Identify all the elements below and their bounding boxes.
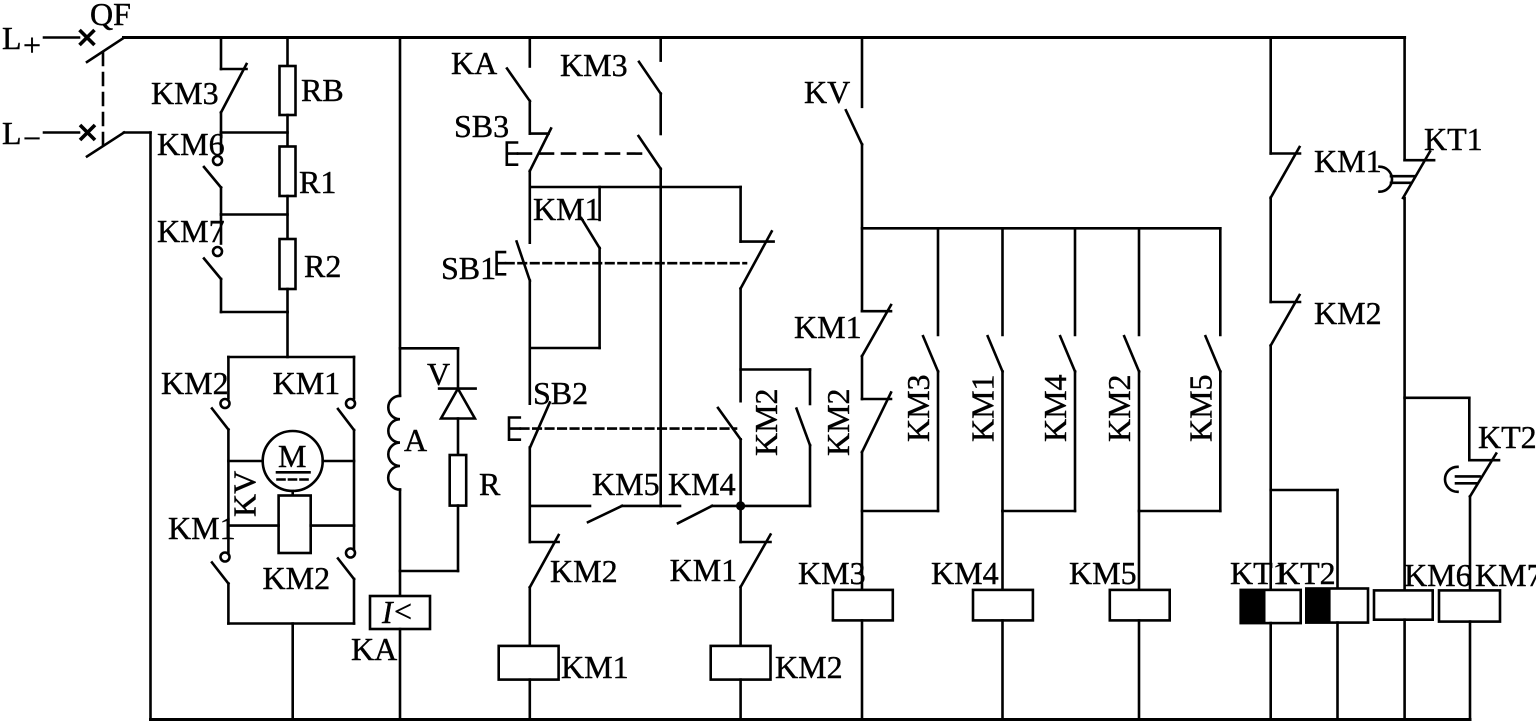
relay coil KV <box>227 471 311 553</box>
wire I-relay to bus <box>399 629 402 720</box>
svg-text:KT2: KT2 <box>1478 419 1536 455</box>
wire bridge left lower <box>227 584 230 624</box>
wire KT2 branch top <box>1271 489 1338 492</box>
svg-text:R2: R2 <box>304 248 341 284</box>
wire KM1 coil to bus <box>528 680 531 720</box>
contact KM1 (NC series) <box>794 305 891 356</box>
node L- <box>2 115 41 156</box>
node L+ <box>2 20 41 63</box>
contactor coil KM6 <box>1374 557 1472 620</box>
contact KM1 (NC right) <box>1271 143 1382 198</box>
contact KA (NO) <box>451 45 530 101</box>
wire bridge bottom <box>228 622 354 625</box>
contact KM4 branch (NO) <box>1037 336 1075 442</box>
contactor coil KM7 <box>1439 557 1536 622</box>
svg-text:KM5: KM5 <box>592 466 660 502</box>
junction dot <box>736 501 745 510</box>
wire L- lead <box>44 131 79 134</box>
wire motor right <box>323 460 354 463</box>
wire KM2 coil to bus <box>739 680 742 720</box>
contact SB2 (NO) <box>530 375 588 448</box>
svg-text:R1: R1 <box>299 164 336 200</box>
wire KM5 coil to bus <box>1138 620 1141 719</box>
wire RB to R1 <box>286 115 289 147</box>
wire L- to left rail <box>124 131 151 134</box>
svg-text:KV: KV <box>227 471 263 517</box>
wire KM2 NC to KM1 coil <box>528 587 531 646</box>
svg-text:KM3: KM3 <box>798 555 866 591</box>
wire bus to KM3 upper <box>659 38 662 61</box>
wire SB2 to node B <box>528 448 531 506</box>
wire KM6 coil to bus <box>1403 620 1406 720</box>
wire node B to KM2 NC <box>528 506 531 542</box>
wire KM4 coil to bus <box>1001 620 1004 719</box>
contact KM7 <box>157 213 225 279</box>
svg-text:KM1: KM1 <box>561 649 629 685</box>
svg-text:KM2: KM2 <box>550 553 618 589</box>
contact KM6 <box>157 126 225 188</box>
svg-text:+: + <box>23 27 41 63</box>
resistor R2 <box>280 239 342 289</box>
contact KM5 (NO horizontal) <box>588 466 660 522</box>
contact KM2 (bridge top-left) <box>161 365 230 430</box>
wire group top bus <box>862 227 1220 230</box>
contact SB2 second (NO) <box>718 408 741 439</box>
svg-text:KM1: KM1 <box>168 510 236 546</box>
wire node B segment 3 <box>712 505 741 508</box>
svg-text:KM1: KM1 <box>670 552 738 588</box>
wire bus corner to KT1 contact <box>1403 38 1406 161</box>
svg-text:A: A <box>404 422 427 458</box>
wire KM2 NC to KM3 coil <box>861 452 864 590</box>
wire KM7 coil to bus <box>1469 622 1472 720</box>
contact KM1 (bridge top-right) <box>273 365 355 430</box>
wire KV to group <box>861 144 864 311</box>
wire branch KM3 upper <box>937 228 940 335</box>
svg-text:KM7: KM7 <box>1475 557 1536 593</box>
contact SB3 second (NO) <box>639 136 661 169</box>
svg-text:KM1: KM1 <box>533 191 601 227</box>
wire bridge top <box>228 356 354 359</box>
contact KV (NO) <box>804 74 862 144</box>
wire branch top <box>400 347 458 350</box>
wire KM2 branch top <box>741 368 810 371</box>
wire left rail <box>149 133 152 720</box>
wire motor left <box>228 460 262 463</box>
contact SB1 (NO) <box>441 242 530 287</box>
contact SB1 second (NC) <box>741 231 774 288</box>
wire R2 to bottom node <box>286 289 289 312</box>
wire KV right <box>311 524 354 527</box>
pushbutton SB3 NC contact <box>454 108 551 171</box>
pushbutton SB2 actuator <box>509 418 736 440</box>
wire node R1/R2 <box>221 213 288 216</box>
svg-text:KA: KA <box>351 631 397 667</box>
wire bus to KM1 right <box>1269 38 1272 154</box>
wire KT1 contact down <box>1403 198 1406 590</box>
pushbutton SB1 actuator <box>497 252 746 274</box>
svg-text:SB1: SB1 <box>441 250 496 286</box>
wire down to bridge <box>286 312 289 357</box>
pushbutton SB3 actuator <box>507 143 646 165</box>
wire to diode <box>457 348 460 388</box>
contactor coil KM5 <box>1069 555 1170 620</box>
wire node A to SB1 right <box>739 187 742 242</box>
contact KM5 branch (NO) <box>1182 336 1220 442</box>
wire bridge right upper <box>353 357 356 398</box>
svg-text:KM3: KM3 <box>151 75 219 111</box>
svg-text:KM1: KM1 <box>965 374 1001 442</box>
wire inductor to I-relay <box>399 490 402 596</box>
wire KT2 contact down <box>1469 497 1472 591</box>
svg-text:KM1: KM1 <box>1314 143 1382 179</box>
svg-text:KM4: KM4 <box>1037 374 1073 442</box>
wire branch KM5 lower <box>1219 371 1222 511</box>
time relay coil KT2 <box>1277 555 1368 623</box>
svg-text:SB2: SB2 <box>533 375 588 411</box>
circuit breaker QF <box>80 0 131 157</box>
svg-text:V: V <box>427 356 450 392</box>
svg-text:KM2: KM2 <box>161 365 229 401</box>
wire bridge right lower <box>353 579 356 624</box>
wire KM3 coil to bus <box>861 620 864 719</box>
wire KT1 coil to bus <box>1269 623 1272 719</box>
wire SB1 right down <box>739 289 742 402</box>
wire KM2 branch bottom <box>741 505 810 508</box>
wire branch KM1 upper <box>1001 228 1004 335</box>
wire R1 to R2 <box>286 196 289 239</box>
contact KM1 (bridge bottom-left) <box>168 510 236 584</box>
wire node A horizontal <box>530 186 741 189</box>
wire branch KM4 lower <box>1074 371 1077 511</box>
wire KT2 contact branch <box>1405 396 1470 399</box>
wire branch KM4 upper <box>1074 228 1077 335</box>
svg-text:−: − <box>23 120 41 156</box>
contact KM3 (NO) <box>560 47 661 94</box>
wire KT2 branch down <box>1336 490 1339 589</box>
diode V <box>427 356 476 419</box>
wire KT2 coil to bus <box>1336 623 1339 720</box>
wire bridge left middle <box>227 430 230 553</box>
wire top bus <box>124 36 1405 39</box>
svg-text:KM2: KM2 <box>1101 374 1137 442</box>
wire KM7 to bottom node <box>220 279 223 312</box>
motor M <box>263 431 323 491</box>
svg-text:KM6: KM6 <box>1404 557 1472 593</box>
wire branch KM1 lower <box>1001 371 1004 511</box>
contact KM1 (NC) <box>670 535 771 589</box>
wire KM2 branch lower <box>809 445 812 506</box>
wire SB2 right down <box>739 439 742 506</box>
wire SB1 to SB2 <box>528 281 531 404</box>
wire bridge tap to bus <box>291 624 294 720</box>
wire group bottom 1 <box>862 510 938 513</box>
contact KM2 (bridge bottom-right) <box>263 549 356 597</box>
wire KM3 rail down <box>659 169 662 506</box>
wire KM1 to KM2 NC <box>861 356 864 399</box>
contactor coil KM3 <box>798 555 893 620</box>
wire node B segment 1 <box>530 505 590 508</box>
svg-text:L: L <box>2 20 22 56</box>
wire bus to KA contact <box>528 38 531 67</box>
resistor R1 <box>280 147 337 201</box>
wire KM3 to SB3 second <box>659 94 662 134</box>
wire dot to KM1 NC <box>739 506 742 542</box>
wire KM2 branch upper <box>809 370 812 405</box>
contact KM4 (NO horizontal) <box>668 466 736 523</box>
svg-text:KT1: KT1 <box>1424 121 1483 157</box>
wire R to branch bottom <box>457 506 460 571</box>
svg-text:KM2: KM2 <box>748 388 784 456</box>
wire bottom bus <box>151 718 1471 721</box>
svg-text:KM3: KM3 <box>900 374 936 442</box>
svg-text:KM5: KM5 <box>1069 555 1137 591</box>
wire KM6 to node <box>220 188 223 215</box>
resistor RB <box>280 66 344 115</box>
wire bridge right middle <box>353 430 356 549</box>
undercurrent relay KA <box>351 593 430 667</box>
wire KA to SB3 <box>528 101 531 134</box>
contact KM1 branch (NO) <box>965 336 1003 442</box>
contactor coil KM4 <box>931 555 1033 620</box>
wire bus to KM3 contact <box>220 38 223 70</box>
wire KM1 to KM2 right <box>1269 198 1272 302</box>
wire branch KM5 upper <box>1219 228 1222 335</box>
svg-text:KV: KV <box>804 74 850 110</box>
wire bus to inductor <box>399 38 402 396</box>
contact KM2 parallel (NO) <box>748 388 810 456</box>
contact KM3 (NC) <box>151 64 247 113</box>
wire KV left <box>228 524 278 527</box>
svg-text:KM1: KM1 <box>273 365 341 401</box>
svg-text:L: L <box>2 115 22 151</box>
svg-text:KM2: KM2 <box>820 388 856 456</box>
contact KM2 (NC) <box>530 535 618 589</box>
svg-text:KM2: KM2 <box>263 560 331 596</box>
svg-text:RB: RB <box>301 72 344 108</box>
contact KM2 (NC right) <box>1271 295 1382 346</box>
svg-text:R: R <box>479 466 501 502</box>
wire KM5 coil feed <box>1138 511 1141 590</box>
svg-text:KM2: KM2 <box>1314 295 1382 331</box>
contact KM1 self-hold branch <box>530 187 601 348</box>
svg-text:KT2: KT2 <box>1277 555 1336 591</box>
svg-text:KM5: KM5 <box>1182 374 1218 442</box>
wire bus to RB <box>286 38 289 67</box>
wire to KT2 contact <box>1468 398 1471 460</box>
contact KM3 branch (NO) <box>900 336 938 442</box>
contactor coil KM1 <box>499 646 629 685</box>
contact KT2 (NC delayed) <box>1445 419 1536 497</box>
wire node A to SB1 <box>528 187 531 243</box>
wire branch KM2 upper <box>1138 228 1141 335</box>
wire KM1 NC to KM2 coil <box>739 587 742 646</box>
svg-text:KM4: KM4 <box>931 555 999 591</box>
wire diode to R <box>457 419 460 456</box>
wire node B segment 2 <box>622 505 680 508</box>
wire SB3 to node A <box>528 171 531 187</box>
svg-text:KM1: KM1 <box>794 309 862 345</box>
wire KM4 coil feed <box>1001 511 1004 590</box>
wire KM3 to node <box>220 113 223 133</box>
wire node RB/R1 <box>221 131 288 134</box>
wire KM2 to KT1 coil <box>1269 346 1272 590</box>
svg-text:<: < <box>394 593 412 629</box>
resistor R <box>450 455 501 506</box>
contact KM2 branch (NO) <box>1101 336 1139 442</box>
wire branch bottom <box>400 570 458 573</box>
inductor A <box>388 396 427 490</box>
wire group bottom 3 <box>1139 510 1220 513</box>
wire motor to KV <box>291 491 294 496</box>
svg-text:QF: QF <box>90 0 131 32</box>
svg-text:KM3: KM3 <box>560 47 628 83</box>
wire bottom node R2 <box>221 311 288 314</box>
svg-text:I: I <box>381 594 394 630</box>
svg-text:SB3: SB3 <box>454 108 509 144</box>
wire branch KM2 lower <box>1138 371 1141 511</box>
contactor coil KM2 <box>711 646 843 685</box>
svg-text:M: M <box>278 438 306 474</box>
wire group bottom 2 <box>1003 510 1076 513</box>
wire L+ lead <box>44 36 79 39</box>
wire branch KM3 lower <box>937 371 940 511</box>
wire bus to KV contact <box>861 38 864 107</box>
contact KM2 (NC series) <box>820 388 891 456</box>
svg-text:KM4: KM4 <box>668 466 736 502</box>
wire bridge left upper <box>227 357 230 398</box>
svg-text:KM2: KM2 <box>775 649 843 685</box>
svg-text:KM7: KM7 <box>157 213 225 249</box>
svg-text:KA: KA <box>451 45 497 81</box>
time relay coil KT1 <box>1230 555 1301 623</box>
contact KT1 (NC delayed) <box>1380 121 1483 198</box>
